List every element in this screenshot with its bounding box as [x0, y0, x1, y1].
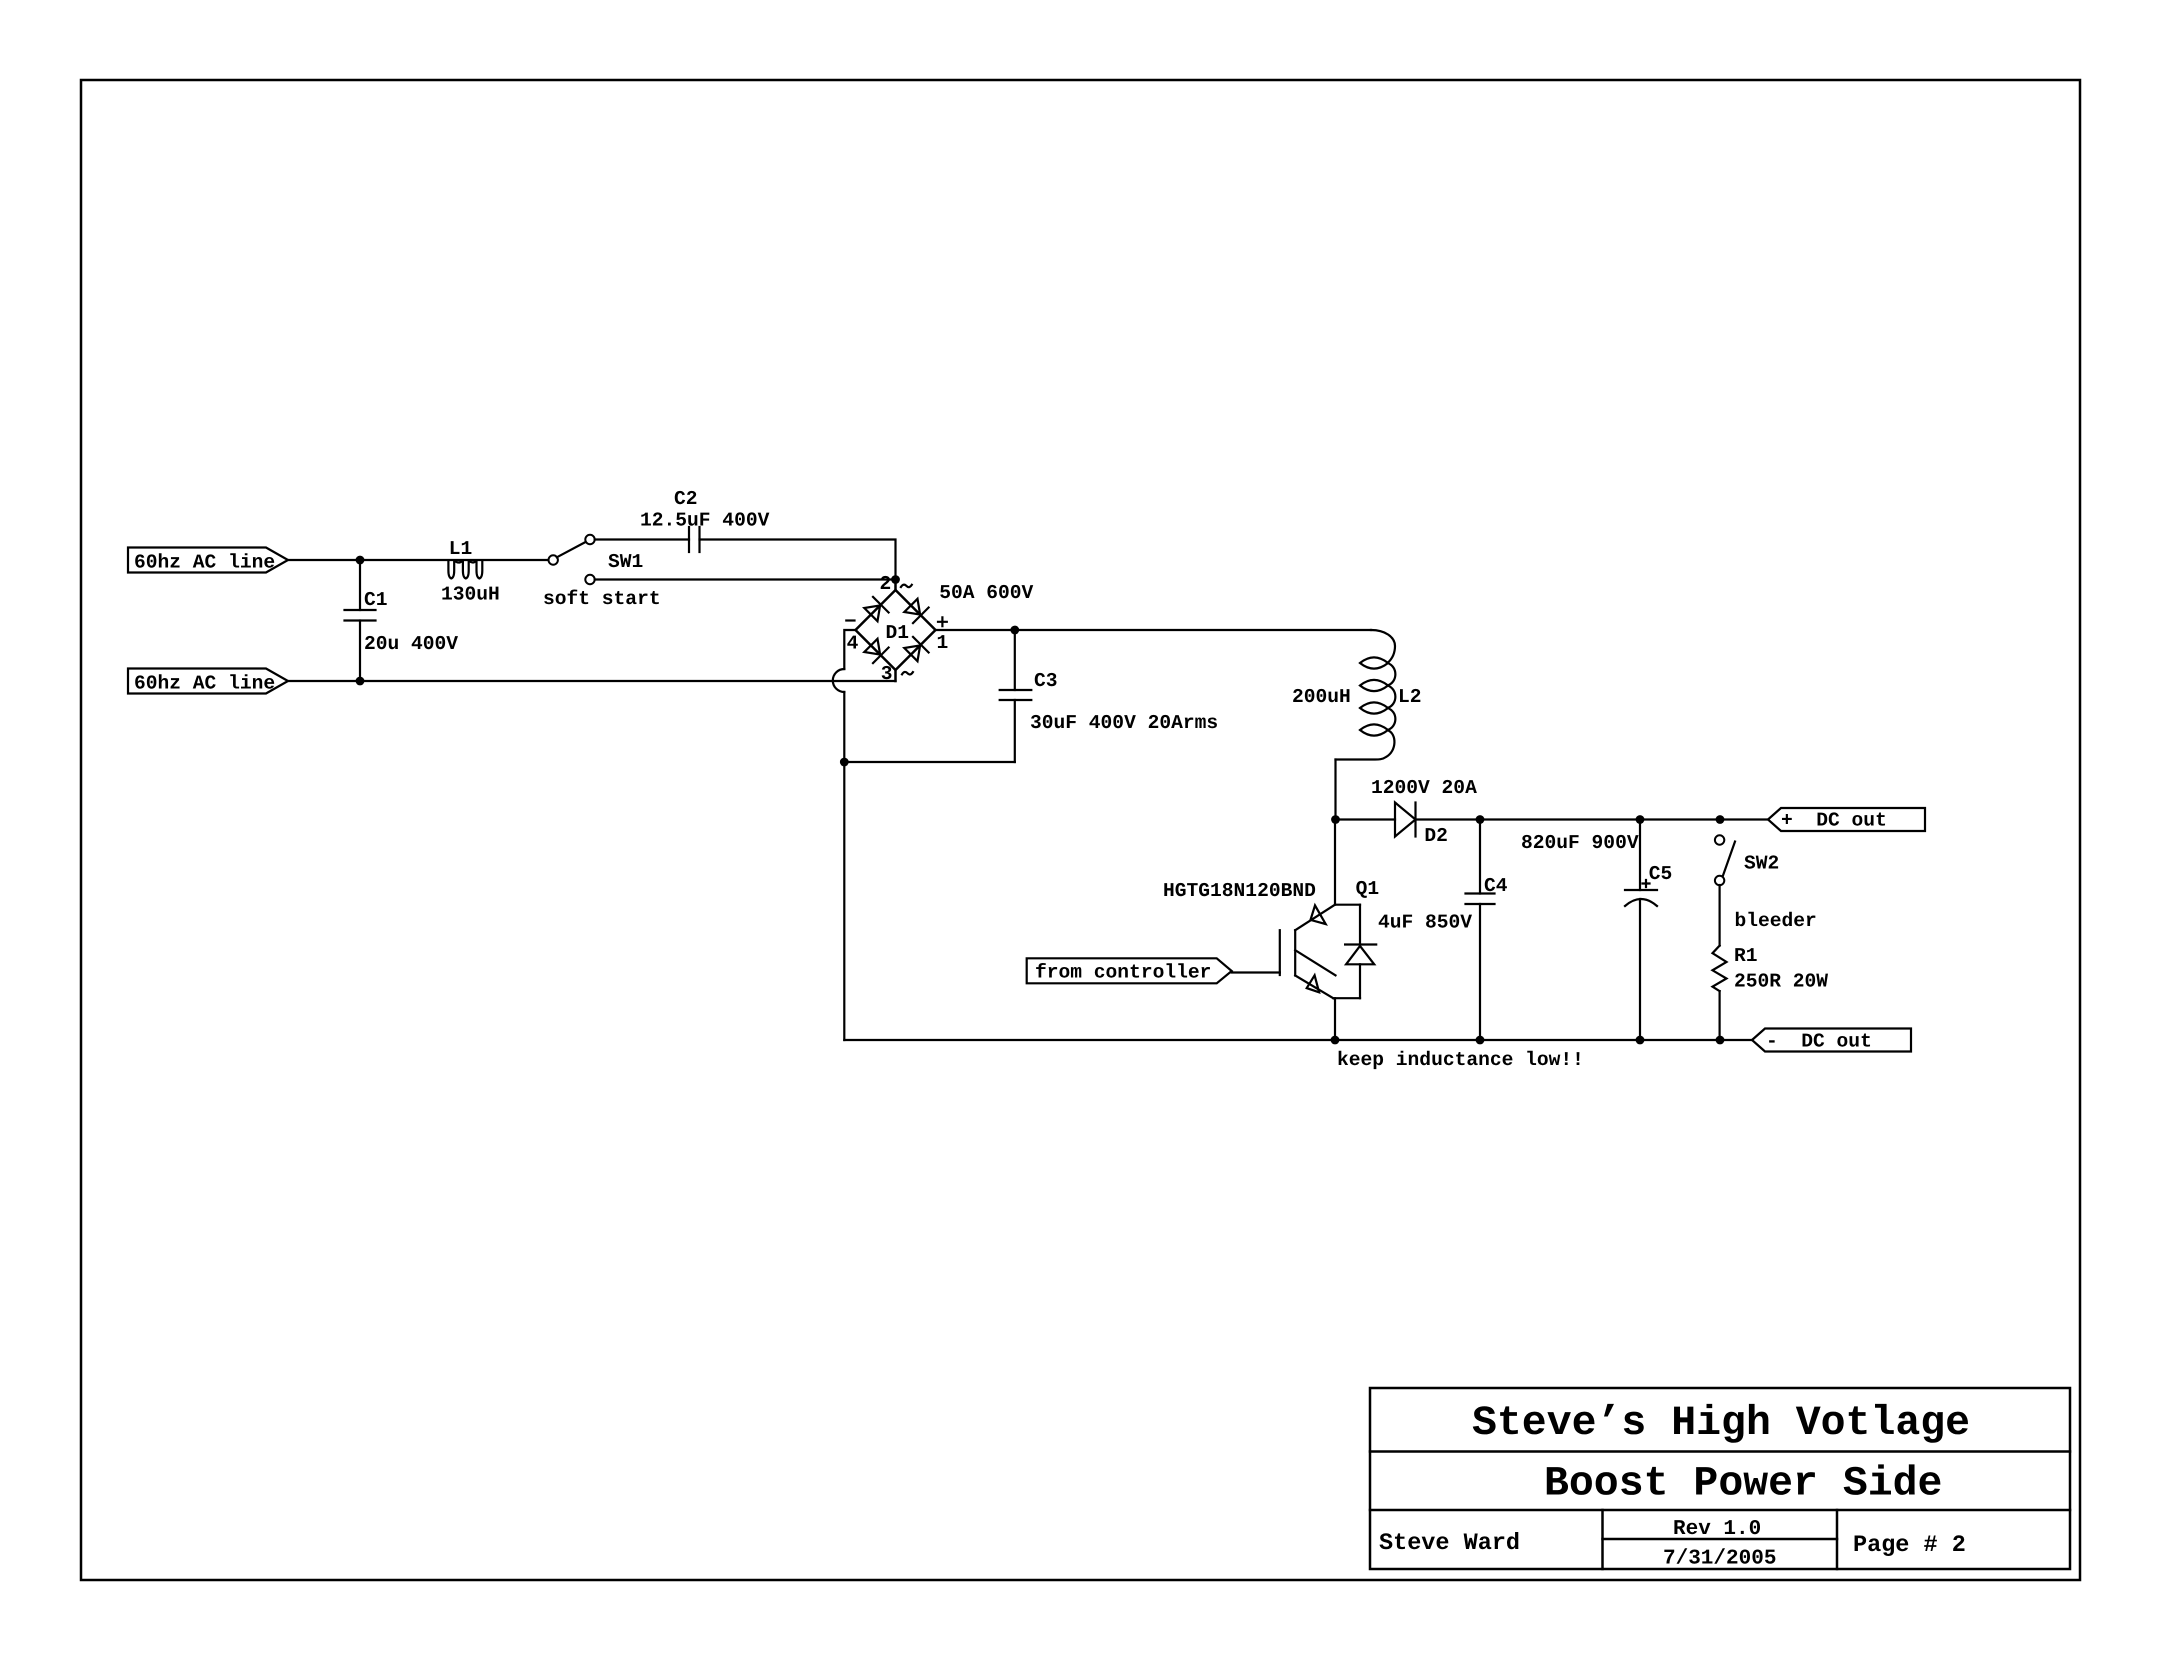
D1 diamond body	[856, 590, 936, 670]
minus mark at pin 4	[846, 619, 854, 621]
svg-text:7/31/2005: 7/31/2005	[1663, 1548, 1776, 1571]
svg-text:820uF 900V: 820uF 900V	[1521, 832, 1639, 854]
wire: SW1 top throw to C2	[595, 538, 689, 540]
capacitor C4	[1466, 820, 1495, 1041]
junction at C5 bottom	[1636, 1036, 1645, 1045]
svg-text:D2: D2	[1424, 825, 1448, 847]
net tag: - DC out	[1752, 1029, 1911, 1053]
wire: L2 bottom lead to D2 rail	[1334, 760, 1336, 820]
D1 diode 2-1 (top-right)	[904, 599, 920, 615]
junction at left rail / C3 bottom	[840, 758, 849, 767]
resistor R1	[1713, 946, 1727, 992]
svg-text:1200V 20A: 1200V 20A	[1371, 777, 1477, 799]
wire: C2 to bridge top junction	[700, 540, 896, 580]
Q1 freewheel diode branch top	[1359, 905, 1361, 945]
junction at L2 / D2 / Q1 collector	[1331, 815, 1340, 824]
switch SW1 pole contact	[549, 555, 558, 564]
switch SW1 throw contact (to C2)	[585, 535, 594, 544]
svg-text:keep inductance low!!: keep inductance low!!	[1337, 1049, 1584, 1071]
wire: C3 bottom to left rail	[844, 761, 1015, 763]
svg-text:12.5uF 400V: 12.5uF 400V	[640, 510, 770, 532]
plus mark at pin 1	[938, 617, 947, 626]
net tag: + DC out	[1768, 808, 1925, 832]
wire: soft start throw to bridge top junction	[595, 578, 896, 580]
C5 polarity plus mark	[1643, 880, 1650, 887]
svg-text:Steve’s High Votlage: Steve’s High Votlage	[1472, 1400, 1970, 1447]
svg-text:60hz AC line: 60hz AC line	[134, 552, 275, 574]
svg-text:R1: R1	[1734, 945, 1758, 967]
Q1 collector corner to diode branch	[1335, 904, 1360, 906]
svg-text:50A 600V: 50A 600V	[939, 582, 1033, 604]
svg-text:+ DC out: + DC out	[1781, 810, 1887, 832]
Q1 middle diagonal	[1295, 950, 1335, 975]
inductor L1	[448, 561, 482, 579]
net tag: 60hz AC line (bottom input)	[128, 669, 288, 695]
wire: SW2 to R1	[1718, 885, 1720, 946]
Q1 emitter arrow	[1307, 975, 1319, 992]
svg-text:soft start: soft start	[543, 588, 661, 610]
wire: bridge minus lead to left rail	[844, 630, 855, 669]
wire: bottom rail	[844, 1039, 1752, 1041]
net tag: 60hz AC line (top input)	[128, 548, 288, 574]
wire: R1 to bottom rail	[1718, 991, 1720, 1040]
inductor L2	[1336, 630, 1396, 760]
wire: left rail down to bottom rail	[843, 692, 845, 1040]
switch SW2	[1715, 835, 1735, 885]
svg-text:130uH: 130uH	[441, 584, 500, 606]
capacitor C3	[1000, 630, 1032, 762]
switch SW1 blade	[557, 542, 586, 557]
junction at C4 top	[1476, 815, 1485, 824]
svg-text:2: 2	[880, 573, 892, 595]
junction at R1 bottom	[1716, 1036, 1725, 1045]
Q1 emitter lead	[1334, 998, 1336, 1040]
svg-text:C2: C2	[674, 488, 698, 510]
wire hop over AC line (no connection)	[833, 669, 845, 692]
junction at C3 top	[1010, 626, 1019, 635]
Q1 collector lead	[1334, 820, 1336, 905]
svg-text:60hz AC line: 60hz AC line	[134, 673, 275, 695]
D1 pin 3 lead	[894, 670, 897, 681]
junction at SW2 top	[1716, 815, 1725, 824]
D1 pin 2 lead	[894, 580, 897, 591]
D1 diode 4-2 (top-left)	[864, 605, 880, 621]
diode D2	[1395, 803, 1416, 837]
svg-text:C4: C4	[1484, 875, 1508, 897]
D1 diode 3-1 (bottom-right)	[904, 645, 920, 661]
Q1 body bar	[1294, 930, 1296, 975]
wire: gate lead from tag to Q1 gate	[1232, 971, 1280, 973]
Q1 gate bar	[1279, 930, 1281, 975]
svg-text:Boost Power Side: Boost Power Side	[1544, 1461, 1942, 1508]
switch SW1 throw contact (soft start)	[585, 575, 594, 584]
capacitor C1	[345, 560, 376, 681]
svg-text:4uF 850V: 4uF 850V	[1378, 912, 1472, 934]
svg-text:200uH: 200uH	[1292, 686, 1351, 708]
Q1 collector arrow	[1311, 905, 1326, 924]
svg-text:Q1: Q1	[1356, 878, 1380, 900]
svg-text:Page # 2: Page # 2	[1853, 1532, 1966, 1559]
svg-text:SW2: SW2	[1744, 853, 1779, 875]
junction at bridge pin 2	[891, 575, 900, 584]
svg-text:250R 20W: 250R 20W	[1734, 971, 1828, 993]
Q1 freewheel diode cathode bar	[1345, 943, 1376, 945]
svg-text:30uF 400V 20Arms: 30uF 400V 20Arms	[1030, 712, 1218, 734]
svg-text:20u 400V: 20u 400V	[364, 633, 458, 655]
svg-text:C3: C3	[1034, 670, 1058, 692]
svg-text:L1: L1	[449, 538, 473, 560]
junction at Q1 emitter / bottom rail	[1331, 1036, 1340, 1045]
svg-text:D1: D1	[886, 622, 910, 644]
transistor Q1 (IGBT)	[1280, 820, 1376, 1041]
junction at C1 bottom	[356, 677, 365, 686]
wire: D2 cathode to +DC out tag	[1416, 818, 1769, 820]
net tag: from controller	[1027, 958, 1232, 983]
svg-text:3: 3	[881, 663, 893, 685]
svg-text:Steve Ward: Steve Ward	[1379, 1530, 1520, 1557]
svg-text:from controller: from controller	[1035, 962, 1211, 984]
AC mark bottom	[902, 672, 913, 675]
Q1 freewheel diode branch bottom	[1359, 964, 1361, 998]
D1 diode 4-3 (bottom-left)	[864, 639, 880, 655]
svg-text:HGTG18N120BND: HGTG18N120BND	[1163, 880, 1316, 902]
Q1 collector diagonal	[1295, 905, 1335, 931]
svg-text:C5: C5	[1649, 863, 1673, 885]
capacitor C5 (polarized)	[1625, 820, 1657, 1041]
wire: bottom AC line from tag to bridge pin 3	[288, 680, 896, 682]
Q1 freewheel diode triangle	[1346, 946, 1374, 964]
svg-text:C1: C1	[364, 589, 388, 611]
Q1 emitter diagonal	[1295, 976, 1333, 999]
junction at C4 bottom	[1476, 1036, 1485, 1045]
svg-text:4: 4	[847, 633, 859, 655]
title block frame	[1370, 1388, 2070, 1569]
wire: bridge plus output to L2	[936, 629, 1372, 631]
wire: junction to D2 anode	[1336, 818, 1396, 820]
svg-text:L2: L2	[1398, 686, 1422, 708]
Q1 emitter corner	[1333, 997, 1360, 999]
junction at C1 top	[356, 556, 365, 565]
svg-text:- DC out: - DC out	[1766, 1031, 1872, 1053]
capacitor C2	[689, 527, 700, 552]
svg-text:Rev 1.0: Rev 1.0	[1673, 1518, 1761, 1541]
svg-text:SW1: SW1	[608, 551, 643, 573]
AC mark top	[901, 585, 912, 588]
wire: top AC line from tag to SW1 pole	[288, 559, 549, 561]
bridge rectifier D1	[856, 580, 936, 682]
svg-text:1: 1	[937, 632, 949, 654]
junction at C5 top	[1636, 815, 1645, 824]
svg-text:bleeder: bleeder	[1735, 910, 1817, 932]
